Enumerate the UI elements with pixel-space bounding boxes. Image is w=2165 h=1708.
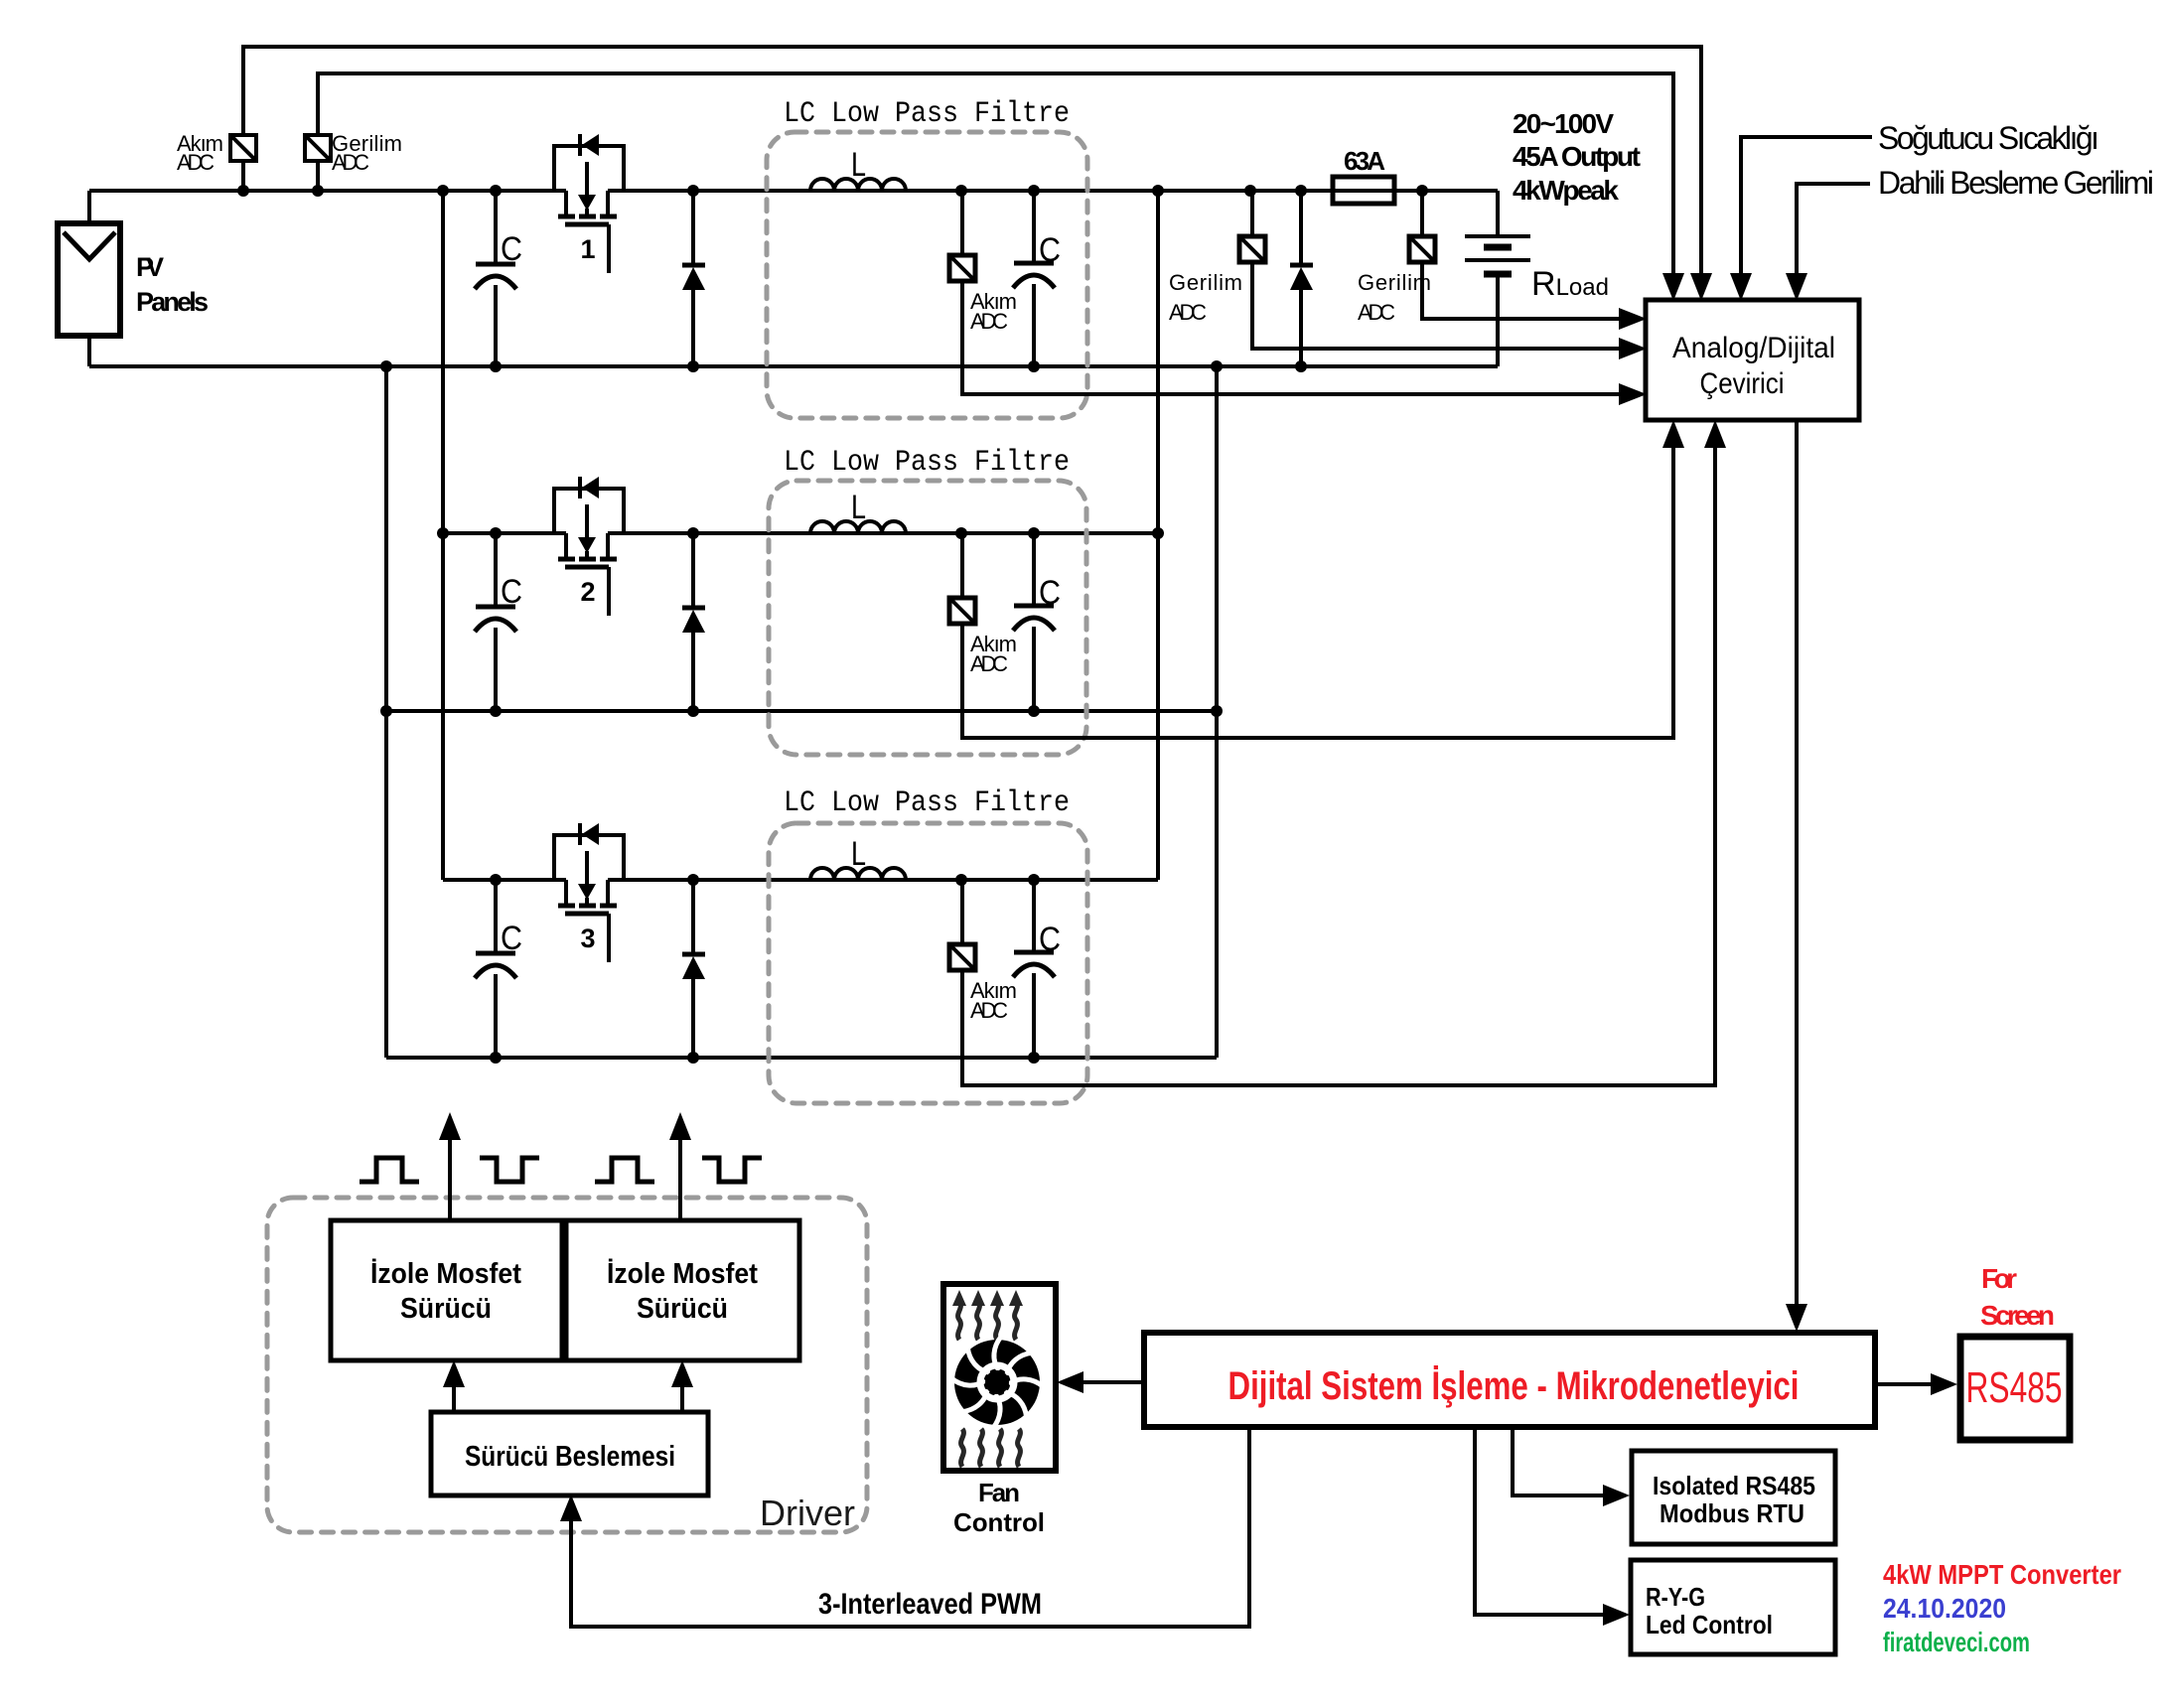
inductor L1 xyxy=(810,179,906,191)
svg-text:LC Low Pass Filtre: LC Low Pass Filtre xyxy=(784,786,1070,820)
svg-text:63A: 63A xyxy=(1344,146,1385,176)
svg-text:For: For xyxy=(1981,1263,2017,1294)
junction dots phase1 top rail xyxy=(237,185,1428,197)
Driver dashed box xyxy=(267,1198,867,1532)
arrowhead Gerilim1 into ADC left xyxy=(1619,338,1647,359)
PV panel symbol xyxy=(58,223,120,336)
svg-text:Control: Control xyxy=(953,1507,1045,1537)
arrowhead supply right driver xyxy=(671,1360,693,1387)
capacitor C filter3 xyxy=(1013,880,1061,1058)
wire 3-Interleaved PWM from microcontroller xyxy=(571,1427,1249,1627)
block Isolated RS485 Modbus RTU xyxy=(1632,1451,1835,1544)
wire phase3 top rail left xyxy=(443,878,566,882)
fan rotor xyxy=(951,1337,1043,1428)
svg-text:Panels: Panels xyxy=(136,287,209,317)
label Akim ADC filter1 xyxy=(970,289,1017,334)
arrowhead Gerilim2 into ADC left xyxy=(1619,308,1647,330)
svg-text:L: L xyxy=(851,146,866,184)
junction dots phase3 top rail xyxy=(490,874,1040,886)
wire supply to left driver xyxy=(452,1386,456,1412)
wire Akim2 sense output to ADC xyxy=(962,448,1673,738)
diode D4 output blocking xyxy=(1290,191,1313,366)
label Fan Control xyxy=(953,1478,1045,1537)
label Gerilim ADC (post-fuse) xyxy=(1358,270,1431,325)
svg-text:ADC: ADC xyxy=(332,150,369,175)
wire Gerilim1 sense output to ADC xyxy=(1252,262,1620,349)
svg-text:ADC: ADC xyxy=(970,309,1008,334)
svg-text:Gerilim: Gerilim xyxy=(1358,270,1431,295)
inductor L2 xyxy=(810,521,906,533)
wire microcontroller to RYG led control xyxy=(1475,1427,1603,1615)
current sensor Akim ADC (PV input) xyxy=(230,135,256,161)
block Analog/Dijital Cevirici xyxy=(1646,300,1859,420)
svg-text:Soğutucu Sıcaklığı: Soğutucu Sıcaklığı xyxy=(1878,120,2099,156)
arrowhead Dahili into ADC xyxy=(1786,273,1807,301)
svg-text:Dahili Besleme Gerilimi: Dahili Besleme Gerilimi xyxy=(1878,165,2154,201)
arrowhead PWM into Surucu Beslemesi xyxy=(560,1494,582,1521)
svg-text:Çevirici: Çevirici xyxy=(1700,367,1785,400)
arrowhead ADC output into microcontroller xyxy=(1786,1304,1807,1332)
wire phase2 top rail right xyxy=(608,531,1158,535)
wire feedback Gerilim0 to ADC (second line) xyxy=(318,73,1673,274)
svg-text:ADC: ADC xyxy=(970,651,1008,676)
svg-text:1: 1 xyxy=(580,234,595,264)
wire output trunk (phases 2,3 to output rail) xyxy=(1156,191,1160,880)
svg-text:İzole Mosfet: İzole Mosfet xyxy=(607,1258,758,1290)
wire gate drive 2 up xyxy=(678,1140,682,1220)
svg-text:İzole Mosfet: İzole Mosfet xyxy=(370,1258,521,1290)
fan icon heat arrows up xyxy=(958,1302,1018,1340)
wire phase1 top rail right xyxy=(608,189,1498,193)
svg-text:L: L xyxy=(851,489,866,526)
battery RLoad xyxy=(1465,191,1530,366)
svg-text:Sürücü: Sürücü xyxy=(400,1293,492,1325)
label Akim ADC (PV input) xyxy=(177,131,223,175)
svg-text:45A Output: 45A Output xyxy=(1513,141,1641,172)
svg-text:24.10.2020: 24.10.2020 xyxy=(1883,1593,2006,1624)
arrowhead Gerilim0 into ADC xyxy=(1662,273,1684,301)
arrowhead into fan xyxy=(1057,1371,1083,1393)
junction dots phase1 bottom rail xyxy=(380,360,1307,372)
svg-text:ADC: ADC xyxy=(177,150,215,175)
arrowhead Akim1 into ADC left xyxy=(1619,383,1647,405)
svg-text:C: C xyxy=(501,573,522,611)
wire ADC output to microcontroller xyxy=(1795,420,1799,1305)
svg-text:Gerilim: Gerilim xyxy=(1169,270,1242,295)
label For Screen xyxy=(1980,1263,2055,1331)
svg-text:ADC: ADC xyxy=(1169,300,1207,325)
label Akim ADC filter3 xyxy=(970,978,1017,1023)
arrowhead into RS485 xyxy=(1931,1373,1957,1395)
pwm waveform glyph 4 (pulse down) xyxy=(702,1158,762,1182)
voltage sensor Gerilim ADC (pre-fuse) xyxy=(1239,191,1265,262)
label output ratings xyxy=(1513,108,1641,206)
current sensor Akim ADC filter1 xyxy=(949,191,975,281)
wire trunk PV+ down to phases 2,3 xyxy=(441,191,445,880)
svg-text:2: 2 xyxy=(580,577,595,607)
capacitor C input phase3 xyxy=(475,880,522,1058)
wire Sogutucu Sicakligi to ADC xyxy=(1741,137,1872,274)
svg-text:Screen: Screen xyxy=(1980,1300,2055,1331)
wire phase2 top rail left xyxy=(443,531,566,535)
svg-text:firatdeveci.com: firatdeveci.com xyxy=(1883,1627,2030,1657)
wire return trunk (bottom rails join) xyxy=(1215,366,1219,1058)
LC filter3 dashed box xyxy=(769,823,1087,1103)
junction dots phase2 bottom rail xyxy=(380,705,1223,717)
wire phase1 top rail left xyxy=(89,189,566,193)
block Dijital Sistem Isleme - Mikrodenetleyici xyxy=(1144,1333,1875,1427)
label Gerilim ADC (pre-fuse) xyxy=(1169,270,1242,325)
svg-text:Sürücü Beslemesi: Sürücü Beslemesi xyxy=(465,1441,675,1473)
fan icon heat waves down xyxy=(961,1429,1021,1467)
pwm waveform glyph 1 (pulse up) xyxy=(360,1158,419,1182)
wire Akim1 sense output to ADC xyxy=(962,281,1620,394)
svg-text:C: C xyxy=(501,230,522,268)
label Akim ADC filter2 xyxy=(970,632,1017,676)
block Izole Mosfet Surucu right xyxy=(566,1220,799,1360)
wire phase3 bottom rail xyxy=(386,1056,1217,1060)
svg-text:Isolated RS485: Isolated RS485 xyxy=(1653,1471,1815,1500)
svg-text:PV: PV xyxy=(136,252,164,282)
wire supply to right driver xyxy=(680,1386,684,1412)
svg-text:Analog/Dijital: Analog/Dijital xyxy=(1672,332,1835,364)
svg-text:ADC: ADC xyxy=(1358,300,1395,325)
svg-text:3-Interleaved PWM: 3-Interleaved PWM xyxy=(818,1588,1042,1621)
arrowhead supply left driver xyxy=(443,1360,465,1387)
transistor Q1 mosfet xyxy=(554,134,624,273)
wire microcontroller to Isolated RS485 xyxy=(1513,1427,1603,1495)
capacitor C filter2 xyxy=(1013,533,1061,711)
wire Akim3 sense output to ADC xyxy=(962,448,1715,1085)
svg-text:4kWpeak: 4kWpeak xyxy=(1513,175,1619,206)
wire PV- to bottom rail xyxy=(87,336,91,366)
fuse F1 63A xyxy=(1333,177,1394,204)
current sensor Akim ADC filter2 xyxy=(949,533,975,624)
wire phase3 top rail right xyxy=(608,878,1158,882)
transistor Q2 mosfet xyxy=(554,477,624,616)
arrowhead Akim2 into ADC bottom xyxy=(1662,420,1684,448)
arrowhead Sogutucu into ADC xyxy=(1730,273,1752,301)
wire Gerilim2 sense output to ADC xyxy=(1422,262,1620,319)
LC filter1 dashed box xyxy=(767,132,1087,418)
wire gate drive 1 up xyxy=(448,1140,452,1220)
block RS485 (for screen) xyxy=(1960,1337,2070,1440)
svg-text:L: L xyxy=(851,835,866,873)
capacitor C input phase1 xyxy=(475,191,522,366)
svg-text:4kW MPPT Converter: 4kW MPPT Converter xyxy=(1883,1559,2121,1590)
wire Dahili Besleme Gerilimi to ADC xyxy=(1797,184,1870,274)
arrowhead into Isolated RS485 xyxy=(1603,1485,1630,1506)
wire Akim0 sensor to rail xyxy=(241,161,245,191)
current sensor Akim ADC filter3 xyxy=(949,880,975,970)
PV Panels label xyxy=(136,252,209,317)
arrowhead into RYG xyxy=(1603,1604,1630,1626)
block R-Y-G Led Control xyxy=(1631,1560,1835,1654)
block Surucu Beslemesi xyxy=(431,1412,708,1495)
label Gerilim ADC (PV input) xyxy=(332,131,402,175)
pwm waveform glyph 3 (pulse up) xyxy=(595,1158,654,1182)
diode D3 freewheel phase3 xyxy=(682,880,705,1058)
wire Gerilim0 sensor to rail xyxy=(316,161,320,191)
block Fan Control xyxy=(943,1284,1056,1471)
junction dots phase3 bottom rail xyxy=(490,1052,1040,1064)
inductor L3 xyxy=(810,868,906,880)
svg-text:Fan: Fan xyxy=(978,1478,1020,1507)
diode D2 freewheel phase2 xyxy=(682,533,705,711)
wire feedback Akim0 to ADC (top line) xyxy=(243,47,1701,274)
voltage sensor Gerilim ADC (post-fuse) xyxy=(1409,191,1435,262)
svg-text:ADC: ADC xyxy=(970,998,1008,1023)
junction dots phase2 top rail xyxy=(437,527,1164,539)
svg-text:3: 3 xyxy=(580,924,595,953)
svg-text:LC Low Pass Filtre: LC Low Pass Filtre xyxy=(784,446,1070,480)
arrowhead gate drive 2 xyxy=(669,1112,691,1140)
LC filter2 dashed box xyxy=(769,481,1086,755)
svg-text:Dijital Sistem İşleme - Mikrod: Dijital Sistem İşleme - Mikrodenetleyici xyxy=(1228,1364,1800,1408)
wire PV+ to top rail xyxy=(87,191,91,223)
capacitor C filter1 xyxy=(1013,191,1061,366)
svg-text:C: C xyxy=(1039,921,1061,958)
svg-text:Driver: Driver xyxy=(760,1493,855,1533)
arrowhead gate drive 1 xyxy=(439,1112,461,1140)
svg-text:C: C xyxy=(1039,574,1061,612)
transistor Q3 mosfet xyxy=(554,823,624,962)
svg-text:Led Control: Led Control xyxy=(1646,1610,1773,1639)
diode D1 freewheel phase1 xyxy=(682,191,705,366)
svg-text:R-Y-G: R-Y-G xyxy=(1646,1582,1705,1612)
arrowhead Akim0 into ADC xyxy=(1690,273,1712,301)
svg-text:Sürücü: Sürücü xyxy=(637,1293,728,1325)
svg-text:Modbus RTU: Modbus RTU xyxy=(1660,1498,1804,1528)
svg-text:C: C xyxy=(1039,231,1061,269)
voltage sensor Gerilim ADC (PV input) xyxy=(305,135,331,161)
wire trunk PV- down to phases 2,3 xyxy=(384,366,388,1058)
pwm waveform glyph 2 (pulse down) xyxy=(480,1158,539,1182)
arrowhead Akim3 into ADC bottom xyxy=(1704,420,1726,448)
wire microcontroller to RS485 screen xyxy=(1875,1382,1931,1386)
block Izole Mosfet Surucu left xyxy=(331,1220,562,1360)
wire phase1/output bottom rail xyxy=(89,364,1498,368)
svg-text:C: C xyxy=(501,920,522,957)
wire through fuse xyxy=(1333,189,1394,193)
wire microcontroller to fan xyxy=(1083,1380,1144,1384)
svg-text:RS485: RS485 xyxy=(1966,1363,2063,1412)
capacitor C input phase2 xyxy=(475,533,522,711)
svg-text:20~100V: 20~100V xyxy=(1513,108,1614,139)
wire phase2 bottom rail xyxy=(386,709,1217,713)
svg-text:LC Low Pass Filtre: LC Low Pass Filtre xyxy=(784,97,1070,131)
